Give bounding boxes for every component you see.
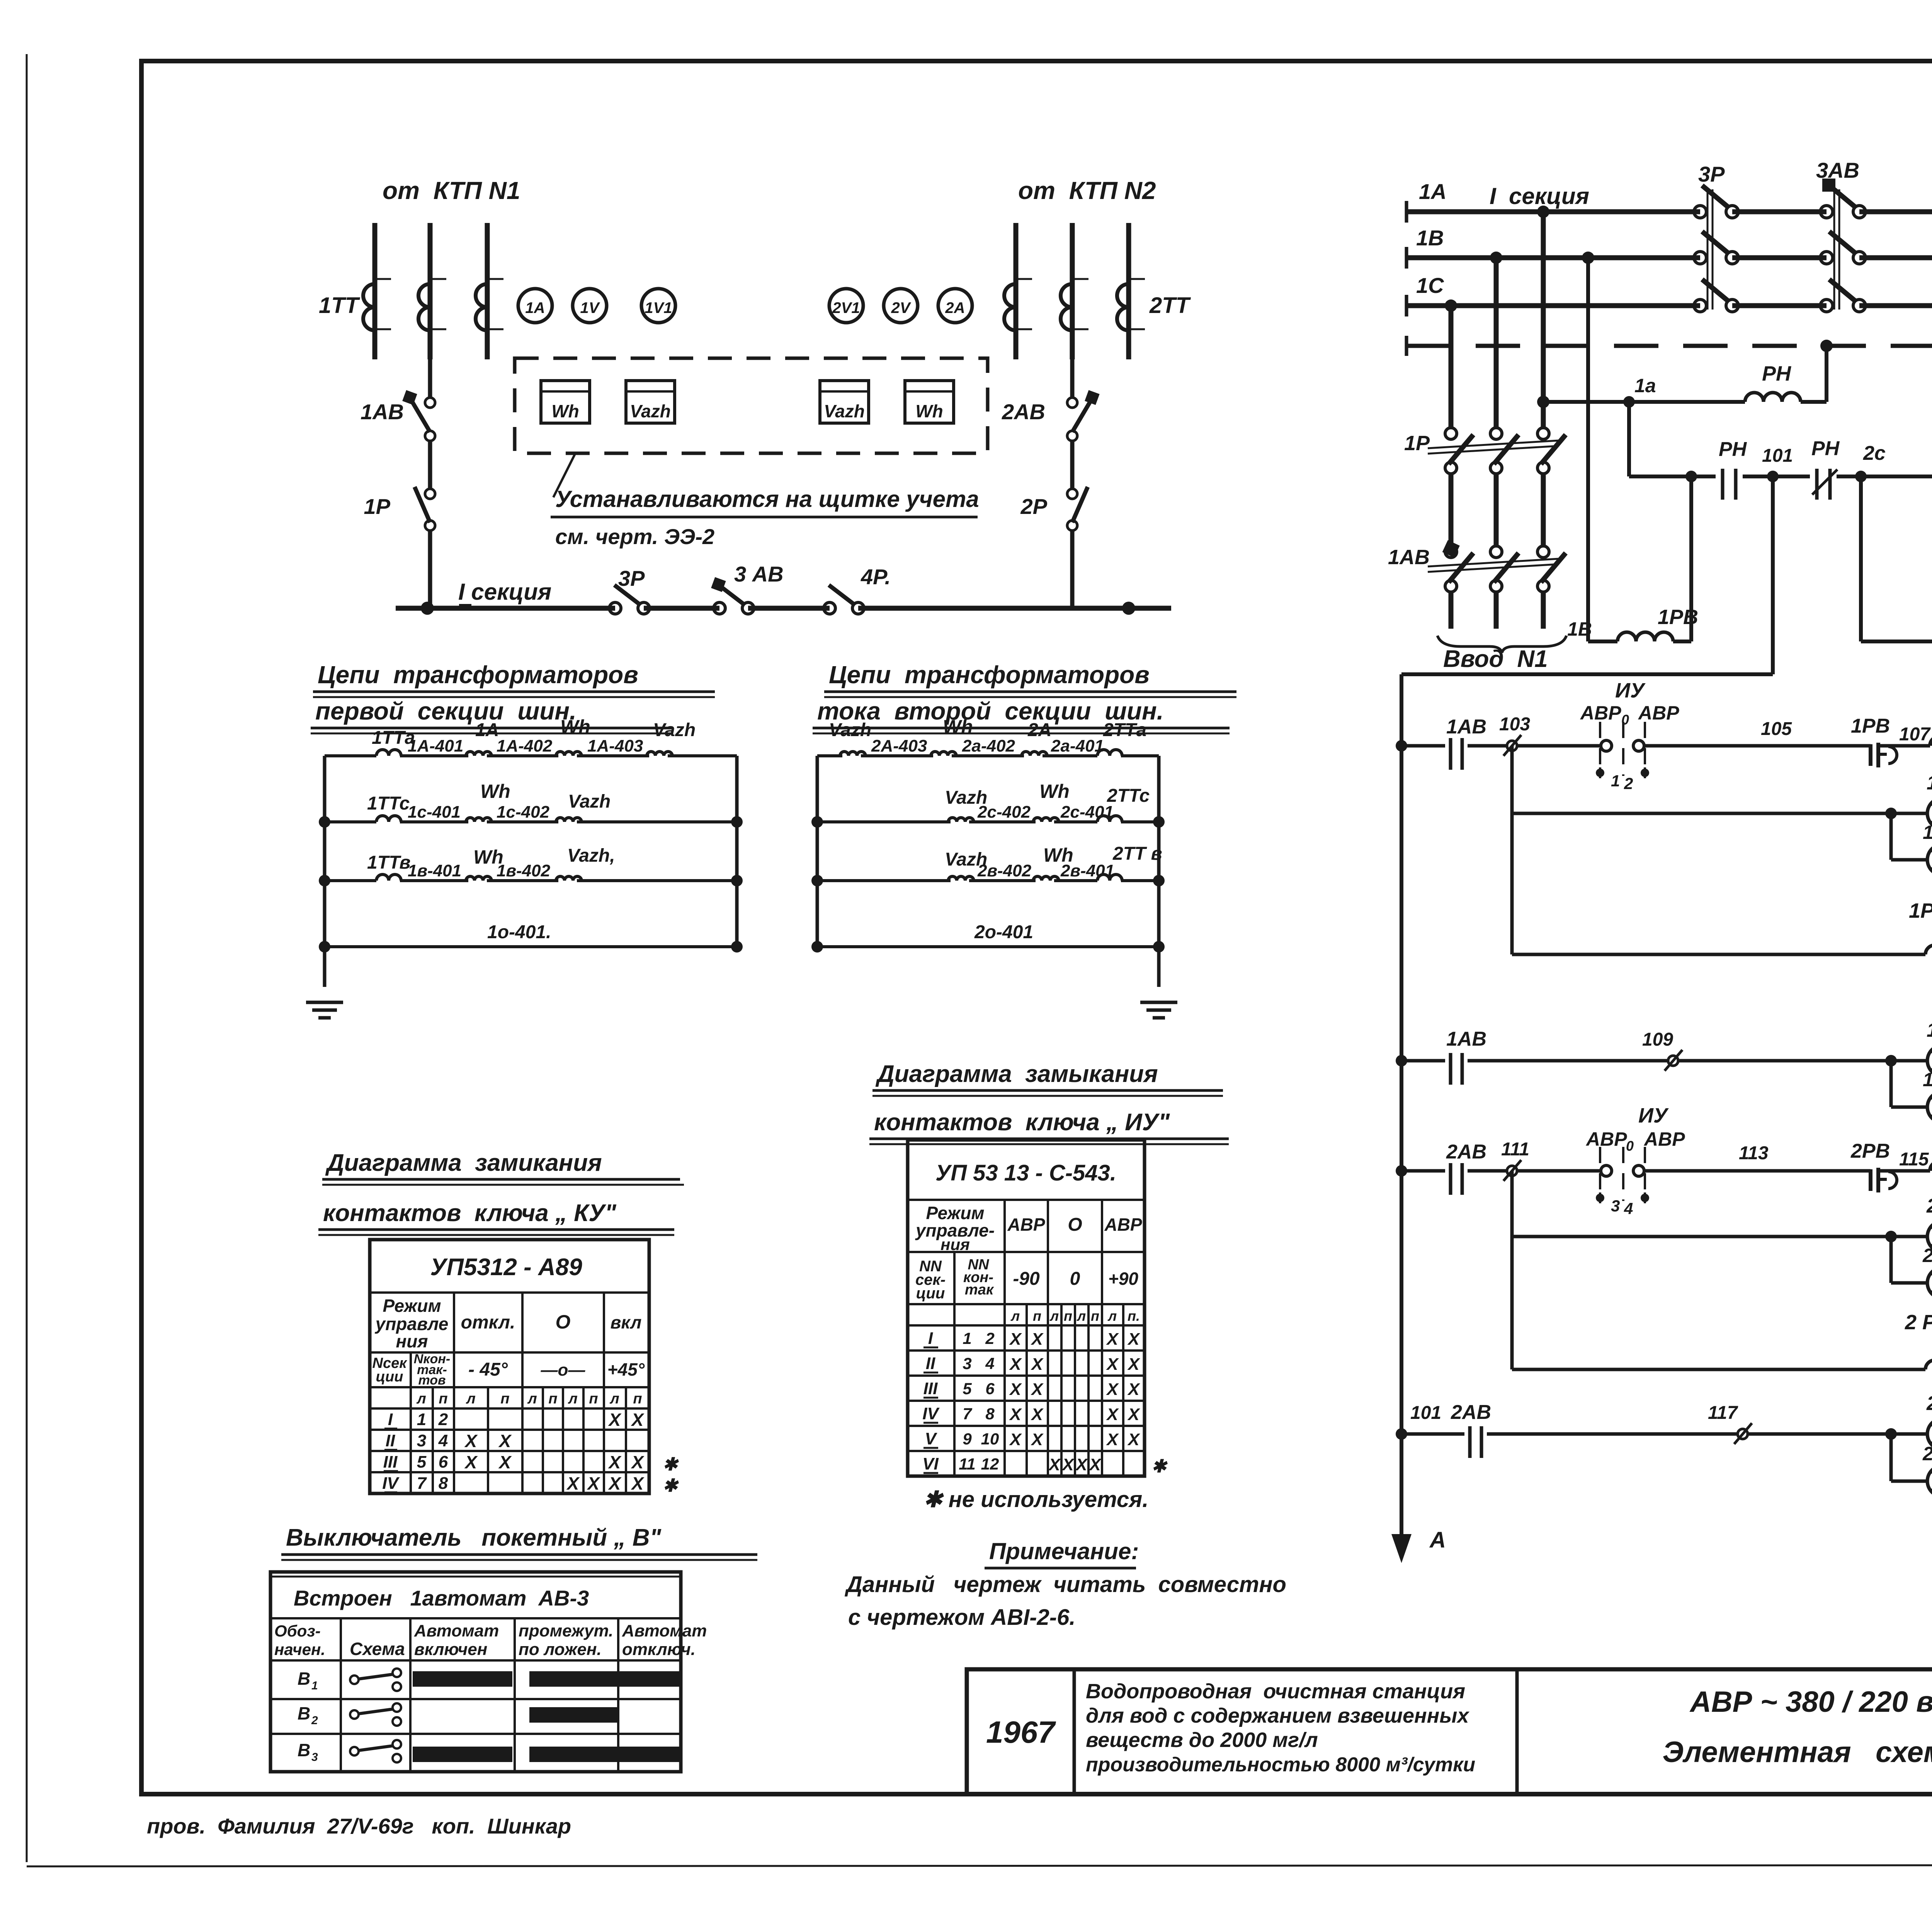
svg-text:2ПК1: 2ПК1	[1922, 1245, 1932, 1266]
junction row1 on left rail	[1396, 740, 1407, 752]
svg-text:7: 7	[963, 1405, 972, 1423]
coil Vazh 2b	[948, 876, 974, 881]
label 1ТТс	[367, 793, 410, 814]
wire label 1с-402	[497, 803, 550, 822]
wire row2 lamps	[1512, 812, 1932, 815]
label 101	[1762, 446, 1793, 466]
wire row 2ТТа	[817, 754, 1159, 757]
node 101	[1767, 471, 1779, 482]
contact 2АВ row8	[1470, 1426, 1481, 1458]
table B column header row	[270, 1618, 707, 1772]
title pocket switch B	[281, 1524, 757, 1560]
label 105	[1761, 719, 1792, 739]
svg-text:с чертежом АВІ-2-6.: с чертежом АВІ-2-6.	[848, 1605, 1075, 1630]
svg-text:6: 6	[439, 1453, 448, 1471]
meter box Wh	[905, 381, 954, 423]
label Wh row a	[560, 716, 590, 738]
svg-text:Данный чертеж читать совме: Данный чертеж читать совместно	[844, 1572, 1286, 1597]
meter 2А	[938, 289, 972, 323]
IU header O	[1068, 1214, 1082, 1235]
meter 1V1	[641, 289, 675, 323]
svg-text:1АВ: 1АВ	[1446, 716, 1486, 738]
svg-text:АВР: АВР	[1104, 1214, 1142, 1235]
feeder line 1 from KTP N1	[372, 223, 378, 359]
svg-text:О: О	[556, 1311, 571, 1333]
svg-text:Х: Х	[1105, 1330, 1119, 1349]
coil Vazh 2a	[840, 752, 866, 756]
label 1а	[1634, 375, 1656, 396]
svg-text:откл.: откл.	[461, 1312, 515, 1333]
label Ввод N1	[1443, 646, 1548, 672]
svg-text:РН: РН	[1811, 437, 1840, 460]
svg-text:1ПК1: 1ПК1	[1923, 822, 1932, 843]
svg-text:Х: Х	[1127, 1405, 1140, 1424]
svg-text:2ЛЗ: 2ЛЗ	[1926, 1392, 1932, 1415]
CT coil 2ТТа	[1097, 750, 1122, 756]
svg-text:1с-401: 1с-401	[408, 803, 461, 822]
label 1ТТв	[367, 852, 411, 873]
svg-text:В: В	[298, 1669, 310, 1689]
node 2с	[1855, 471, 1867, 482]
title circuits of transformers (second)	[813, 661, 1236, 733]
junction 1C drop	[1445, 299, 1457, 312]
label 3АВ	[734, 562, 784, 586]
label Vazh row a	[653, 720, 696, 740]
wire label 2в-402	[977, 861, 1032, 880]
switch symbol B3	[298, 1740, 401, 1764]
meter box Vazh	[820, 381, 869, 423]
svg-text:Устанавливаются на щитке учета: Устанавливаются на щитке учета	[555, 486, 979, 512]
svg-text:Vazh,: Vazh,	[567, 845, 615, 866]
svg-text:Х: Х	[1030, 1430, 1044, 1449]
meter 1А	[518, 289, 552, 323]
bus 1B-2B	[1406, 247, 1932, 269]
svg-text:2в-401: 2в-401	[1060, 861, 1114, 880]
svg-text:3: 3	[311, 1751, 318, 1764]
svg-text:Х: Х	[608, 1473, 622, 1493]
label Wh row c	[480, 781, 510, 802]
svg-text:О: О	[1068, 1214, 1082, 1235]
svg-text:Wh: Wh	[551, 401, 579, 421]
left rail (first CT block)	[323, 756, 327, 987]
svg-text:Х: Х	[1105, 1380, 1119, 1399]
meter box Wh	[541, 381, 590, 423]
svg-text:+90: +90	[1108, 1269, 1138, 1289]
lamp 2ПК and 2ПК1	[1885, 1195, 1932, 1298]
label Wh 2a	[943, 716, 973, 738]
wire label 2с-401	[1060, 803, 1114, 822]
left control rail	[1400, 674, 1403, 1526]
svg-text:по ложен.: по ложен.	[519, 1640, 602, 1659]
svg-text:АВР: АВР	[1580, 702, 1621, 724]
svg-text:Vazh: Vazh	[824, 401, 865, 421]
svg-text:6: 6	[985, 1379, 995, 1398]
svg-text:VІ: VІ	[922, 1454, 939, 1473]
svg-text:п: п	[500, 1391, 509, 1407]
KU header 0 arrows	[541, 1361, 586, 1379]
svg-text:п: п	[1091, 1308, 1099, 1324]
label 1о-401	[487, 922, 551, 942]
title IU diagram line1	[872, 1061, 1223, 1096]
svg-text:✱: ✱	[1151, 1456, 1168, 1476]
wire row3	[1512, 953, 1932, 956]
relay coil 1РВ	[1617, 632, 1673, 641]
label Vazh 2b	[945, 849, 987, 870]
svg-text:начен.: начен.	[274, 1640, 325, 1658]
label 3Р	[618, 566, 645, 590]
svg-text:2АВ: 2АВ	[1446, 1141, 1486, 1163]
svg-text:5: 5	[417, 1453, 427, 1471]
bus 1A-2A	[1406, 201, 1932, 223]
svg-text:Х: Х	[631, 1410, 645, 1430]
svg-text:+45°: +45°	[607, 1359, 645, 1379]
IU row VI	[922, 1454, 1168, 1476]
wire row4	[1401, 1059, 1932, 1063]
svg-text:ИУ: ИУ	[1638, 1104, 1669, 1127]
svg-text:107: 107	[1899, 724, 1931, 745]
svg-text:АВР: АВР	[1638, 702, 1679, 724]
label 4Р	[861, 565, 891, 589]
label 1АВ	[361, 400, 404, 424]
svg-text:Х: Х	[1088, 1455, 1102, 1474]
KU row IV	[382, 1473, 679, 1495]
note line 2	[848, 1605, 1075, 1630]
svg-text:1В: 1В	[1416, 226, 1444, 250]
svg-text:Х: Х	[1127, 1330, 1140, 1349]
current transformer 1ТТ phase 1	[363, 279, 391, 330]
svg-text:АВР: АВР	[1007, 1214, 1045, 1235]
svg-text:✱ не используется.: ✱ не используется.	[923, 1487, 1148, 1512]
junction row4 on left rail	[1396, 1055, 1407, 1067]
KU header Nkont	[414, 1352, 450, 1388]
table KU type label	[430, 1254, 582, 1281]
svg-text:1ТТс: 1ТТс	[367, 793, 410, 814]
KU header otkl	[461, 1312, 515, 1333]
label 1В	[1416, 226, 1444, 250]
svg-text:1РАВ: 1РАВ	[1909, 899, 1932, 922]
wire label 2А-403	[871, 737, 927, 755]
title block object line1	[1086, 1680, 1465, 1703]
svg-text:2: 2	[311, 1714, 318, 1727]
switch symbol B2	[298, 1703, 401, 1727]
svg-text:Режим: Режим	[383, 1296, 441, 1316]
svg-text:1А-402: 1А-402	[497, 737, 553, 755]
contact 1АВ row4	[1451, 1053, 1462, 1085]
IU header +90	[1108, 1269, 1138, 1289]
state bar B3 col4-5	[529, 1747, 681, 1762]
meter box Vazh	[626, 381, 675, 423]
svg-text:1V1: 1V1	[645, 299, 672, 316]
svg-text:Х: Х	[498, 1452, 512, 1472]
right rail (first CT block)	[735, 756, 739, 947]
coil Wh row c	[466, 818, 492, 822]
svg-text:ции: ции	[916, 1285, 945, 1302]
label ИУ row5	[1638, 1104, 1669, 1127]
svg-text:0: 0	[1621, 712, 1629, 728]
knife switch 2Р	[1067, 487, 1088, 608]
svg-text:2ЛЗ1: 2ЛЗ1	[1922, 1443, 1932, 1465]
svg-text:отключ.: отключ.	[622, 1640, 696, 1659]
table KU grid	[370, 1240, 649, 1493]
label 1В (coil)	[1567, 618, 1592, 640]
svg-text:п: п	[439, 1391, 447, 1407]
wire label 1А-403	[587, 737, 643, 755]
svg-text:Wh: Wh	[943, 716, 973, 738]
svg-text:1С: 1С	[1416, 273, 1444, 298]
label 1ТТ	[319, 293, 361, 318]
svg-text:Цепи трансформаторов: Цепи трансформаторов	[829, 661, 1150, 689]
wire label 1в-401	[408, 861, 461, 880]
coil Vazh 2c	[948, 818, 974, 822]
svg-text:Х: Х	[1075, 1455, 1088, 1474]
circuit breaker 1АВ	[402, 390, 435, 489]
wire to left rail	[1401, 672, 1773, 676]
coil Vazh row b	[556, 876, 582, 881]
svg-text:3Р: 3Р	[1698, 162, 1725, 186]
current transformer 1ТТ phase 2	[418, 279, 446, 330]
title KU diagram line2	[318, 1200, 674, 1235]
junction dots first block	[319, 816, 743, 953]
IU row IV	[922, 1404, 1140, 1424]
svg-text:І: І	[928, 1329, 933, 1348]
vertical from node 103	[1510, 746, 1514, 954]
KU header Nsek	[372, 1355, 408, 1385]
svg-text:АВР: АВР	[1585, 1128, 1627, 1150]
label 2ТТ	[1149, 293, 1191, 318]
wire label 2с-402	[977, 803, 1031, 822]
svg-text:Х: Х	[1105, 1405, 1119, 1424]
meter 2V1	[829, 289, 863, 323]
svg-text:1 ЛЗ: 1 ЛЗ	[1927, 1019, 1932, 1041]
junction at 1Р drop	[421, 602, 434, 615]
table B outer	[270, 1572, 681, 1772]
IU header АВР right	[1104, 1214, 1142, 1235]
svg-text:1: 1	[1611, 772, 1620, 790]
svg-text:Х: Х	[1127, 1430, 1140, 1449]
svg-text:производительностью 8000 м³/су: производительностью 8000 м³/сутки	[1086, 1754, 1475, 1776]
label 1Р	[364, 494, 391, 519]
wire row 2ТТв	[817, 879, 1159, 882]
IU header 0	[1070, 1269, 1080, 1289]
svg-text:промежут.: промежут.	[519, 1621, 613, 1640]
svg-text:от КТП N1: от КТП N1	[383, 177, 520, 204]
contact 2РВ time-delay	[1871, 1168, 1897, 1192]
label 2РАВ	[1905, 1311, 1932, 1334]
svg-text:Х: Х	[631, 1473, 645, 1493]
coil Wh 2b	[1033, 876, 1059, 881]
svg-text:1ЛЗ1: 1ЛЗ1	[1923, 1069, 1932, 1090]
contact 1АВ row1	[1451, 738, 1462, 770]
KU header -45	[468, 1359, 508, 1380]
svg-text:п: п	[1033, 1308, 1041, 1324]
svg-text:л: л	[416, 1391, 426, 1407]
label 1А	[1419, 179, 1447, 204]
section switch 3Р (3-pole)	[1694, 185, 1738, 312]
svg-text:1А: 1А	[475, 720, 499, 740]
note line 1	[844, 1572, 1286, 1597]
svg-text:7: 7	[417, 1474, 427, 1493]
node 117	[1734, 1423, 1752, 1444]
svg-text:1: 1	[311, 1679, 318, 1692]
IU header NN sek	[915, 1258, 946, 1302]
svg-text:Х: Х	[1127, 1380, 1140, 1399]
svg-text:п: п	[548, 1391, 557, 1407]
svg-text:л: л	[1010, 1308, 1020, 1324]
svg-text:-90: -90	[1013, 1269, 1040, 1289]
label 1РАВ	[1909, 899, 1932, 922]
label 1А	[475, 720, 499, 740]
svg-text:включен: включен	[414, 1640, 487, 1659]
svg-text:11: 11	[959, 1455, 976, 1473]
label РН contact 1	[1719, 438, 1747, 461]
svg-text:Обоз-: Обоз-	[274, 1622, 321, 1640]
label Vazh row b	[567, 845, 615, 866]
IU l/p row	[1010, 1308, 1140, 1324]
KU row I	[384, 1410, 645, 1430]
table B header row	[270, 1586, 681, 1618]
feeder line 3 from KTP N1	[485, 223, 490, 359]
relay coil 1РАВ	[1925, 945, 1932, 954]
junction 1РВ drop on РН row	[1685, 471, 1697, 482]
label 1АВ row1	[1446, 716, 1486, 738]
title block name line2	[1663, 1736, 1932, 1769]
dashed neutral bus	[1406, 336, 1932, 356]
left rail (second CT block)	[816, 756, 819, 947]
wire row5	[1401, 1169, 1932, 1173]
wire row1	[1401, 744, 1932, 748]
svg-text:для вод с содержанием взвешенн: для вод с содержанием взвешенных	[1086, 1704, 1469, 1727]
IU row V	[923, 1429, 1140, 1449]
wire row 2ТТс	[817, 820, 1159, 823]
svg-text:4: 4	[438, 1431, 448, 1450]
svg-text:1967: 1967	[986, 1715, 1056, 1749]
wire label 2а-402	[962, 737, 1015, 755]
label Wh row b	[473, 846, 503, 868]
IU row I	[923, 1329, 1140, 1349]
svg-text:І: І	[388, 1410, 393, 1429]
svg-text:1: 1	[417, 1410, 426, 1429]
key switch ИУ contacts 1-2	[1596, 722, 1649, 793]
wire feeder drop to 1АВ	[428, 359, 432, 398]
meter 1V	[573, 289, 607, 323]
svg-text:п: п	[633, 1391, 642, 1407]
junction row8 on left rail	[1396, 1428, 1407, 1440]
svg-text:Wh: Wh	[560, 716, 590, 738]
svg-text:п: п	[589, 1391, 598, 1407]
svg-text:І секция: І секция	[1490, 183, 1589, 209]
KU row II	[384, 1431, 512, 1451]
coil Wh row b	[466, 876, 492, 881]
svg-text:Ввод N1: Ввод N1	[1443, 646, 1548, 672]
svg-text:1в-401: 1в-401	[408, 861, 461, 880]
knife switch 1Р	[415, 487, 435, 608]
wire label 1А-402	[497, 737, 553, 755]
svg-text:так: так	[965, 1282, 994, 1298]
svg-text:115: 115	[1899, 1149, 1929, 1170]
wire 2о-401	[817, 945, 1159, 948]
svg-text:Автомат: Автомат	[622, 1621, 707, 1640]
svg-text:Х: Х	[1105, 1355, 1119, 1374]
svg-text:2Р: 2Р	[1020, 494, 1048, 519]
wattmeter coil Wh row a	[556, 752, 582, 756]
svg-text:Элементная схема.: Элементная схема.	[1663, 1736, 1932, 1769]
KU l/p row	[416, 1391, 642, 1407]
label 2АВ row8	[1451, 1401, 1491, 1424]
svg-text:Х: Х	[464, 1452, 478, 1472]
svg-text:1с-402: 1с-402	[497, 803, 550, 822]
label 2АВ row5	[1446, 1141, 1486, 1163]
svg-text:Х: Х	[1009, 1430, 1022, 1449]
svg-text:Vazh: Vazh	[568, 791, 611, 812]
svg-text:Х: Х	[1030, 1380, 1044, 1399]
junction 1A drop	[1537, 206, 1549, 218]
lamp 2ЛЗ and 2ЛЗ1	[1885, 1392, 1932, 1497]
svg-text:л: л	[1107, 1308, 1117, 1324]
svg-text:Х: Х	[1009, 1330, 1022, 1349]
IU row II	[923, 1354, 1140, 1374]
arrow А	[1391, 1526, 1412, 1563]
wire row6 lamps	[1512, 1235, 1932, 1238]
svg-text:л: л	[1077, 1308, 1086, 1324]
wire feeder drop to 2АВ	[1070, 359, 1075, 398]
svg-text:1в-402: 1в-402	[497, 861, 551, 880]
svg-text:3: 3	[963, 1354, 971, 1373]
state bar B2 col4	[529, 1707, 618, 1723]
wire row 1ТТс	[325, 820, 737, 823]
svg-text:ции: ции	[376, 1369, 403, 1385]
svg-text:Vazh: Vazh	[630, 401, 671, 421]
svg-text:1РВ: 1РВ	[1658, 606, 1698, 629]
switch symbol B1	[298, 1669, 401, 1692]
node 1а	[1623, 396, 1635, 408]
junction 1B drop	[1490, 252, 1502, 264]
svg-text:РН: РН	[1719, 438, 1747, 461]
KU header rezhim	[375, 1296, 449, 1351]
svg-text:Х: Х	[1048, 1455, 1061, 1474]
svg-text:111: 111	[1501, 1139, 1529, 1160]
note not used	[923, 1487, 1148, 1512]
label 1Р (ввод)	[1404, 432, 1430, 455]
label 2ТТв	[1112, 844, 1162, 864]
svg-text:п: п	[1064, 1308, 1072, 1324]
svg-text:1V: 1V	[580, 299, 600, 316]
current transformer 2ТТ phase 3	[1117, 279, 1145, 330]
CT coil 2ТТс	[1097, 816, 1122, 822]
KU row III	[383, 1452, 679, 1474]
CT coil 2ТТв	[1097, 874, 1122, 881]
bus 1C-2C	[1406, 295, 1932, 316]
node 103	[1503, 735, 1521, 756]
KU header +45	[607, 1359, 645, 1379]
svg-text:- 45°: - 45°	[468, 1359, 508, 1380]
wire 1A drop to node 1а	[1543, 400, 1629, 404]
KU header O	[556, 1311, 571, 1333]
current transformer 1ТТ phase 3	[476, 279, 503, 330]
svg-text:В: В	[298, 1740, 310, 1760]
svg-text:1а: 1а	[1634, 375, 1656, 396]
svg-text:контактов ключа „ ИУ": контактов ключа „ ИУ"	[874, 1109, 1170, 1136]
coil Wh 2c	[1033, 818, 1059, 822]
circuit breaker 2АВ	[1067, 390, 1100, 489]
vertical from node 111	[1510, 1171, 1514, 1369]
svg-text:0: 0	[1626, 1138, 1634, 1154]
knife switch 1Р (3-pole)	[1428, 428, 1566, 474]
label 1АВ row4	[1446, 1028, 1486, 1050]
svg-text:Х: Х	[1030, 1405, 1044, 1424]
svg-text:Автомат: Автомат	[414, 1621, 499, 1640]
svg-text:2А: 2А	[945, 299, 965, 316]
svg-text:3 АВ: 3 АВ	[734, 562, 784, 586]
